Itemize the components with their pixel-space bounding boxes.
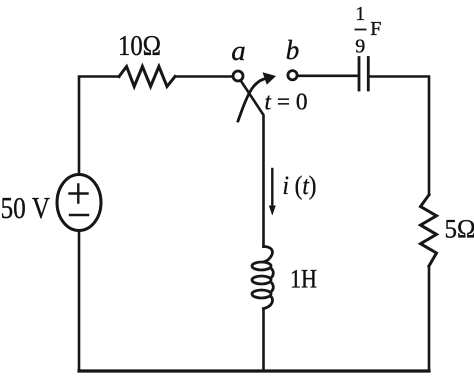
svg-text:t = 0: t = 0 (265, 90, 308, 116)
svg-text:50 V: 50 V (1, 190, 51, 225)
svg-text:5Ω: 5Ω (445, 215, 474, 244)
svg-text:1H: 1H (290, 265, 317, 294)
svg-text:b: b (286, 35, 300, 65)
svg-text:1: 1 (355, 3, 365, 25)
svg-text:10Ω: 10Ω (118, 31, 161, 62)
svg-text:9: 9 (355, 36, 365, 58)
svg-text:F: F (370, 18, 381, 40)
svg-text:i (t): i (t) (283, 171, 317, 200)
svg-text:a: a (231, 35, 246, 67)
